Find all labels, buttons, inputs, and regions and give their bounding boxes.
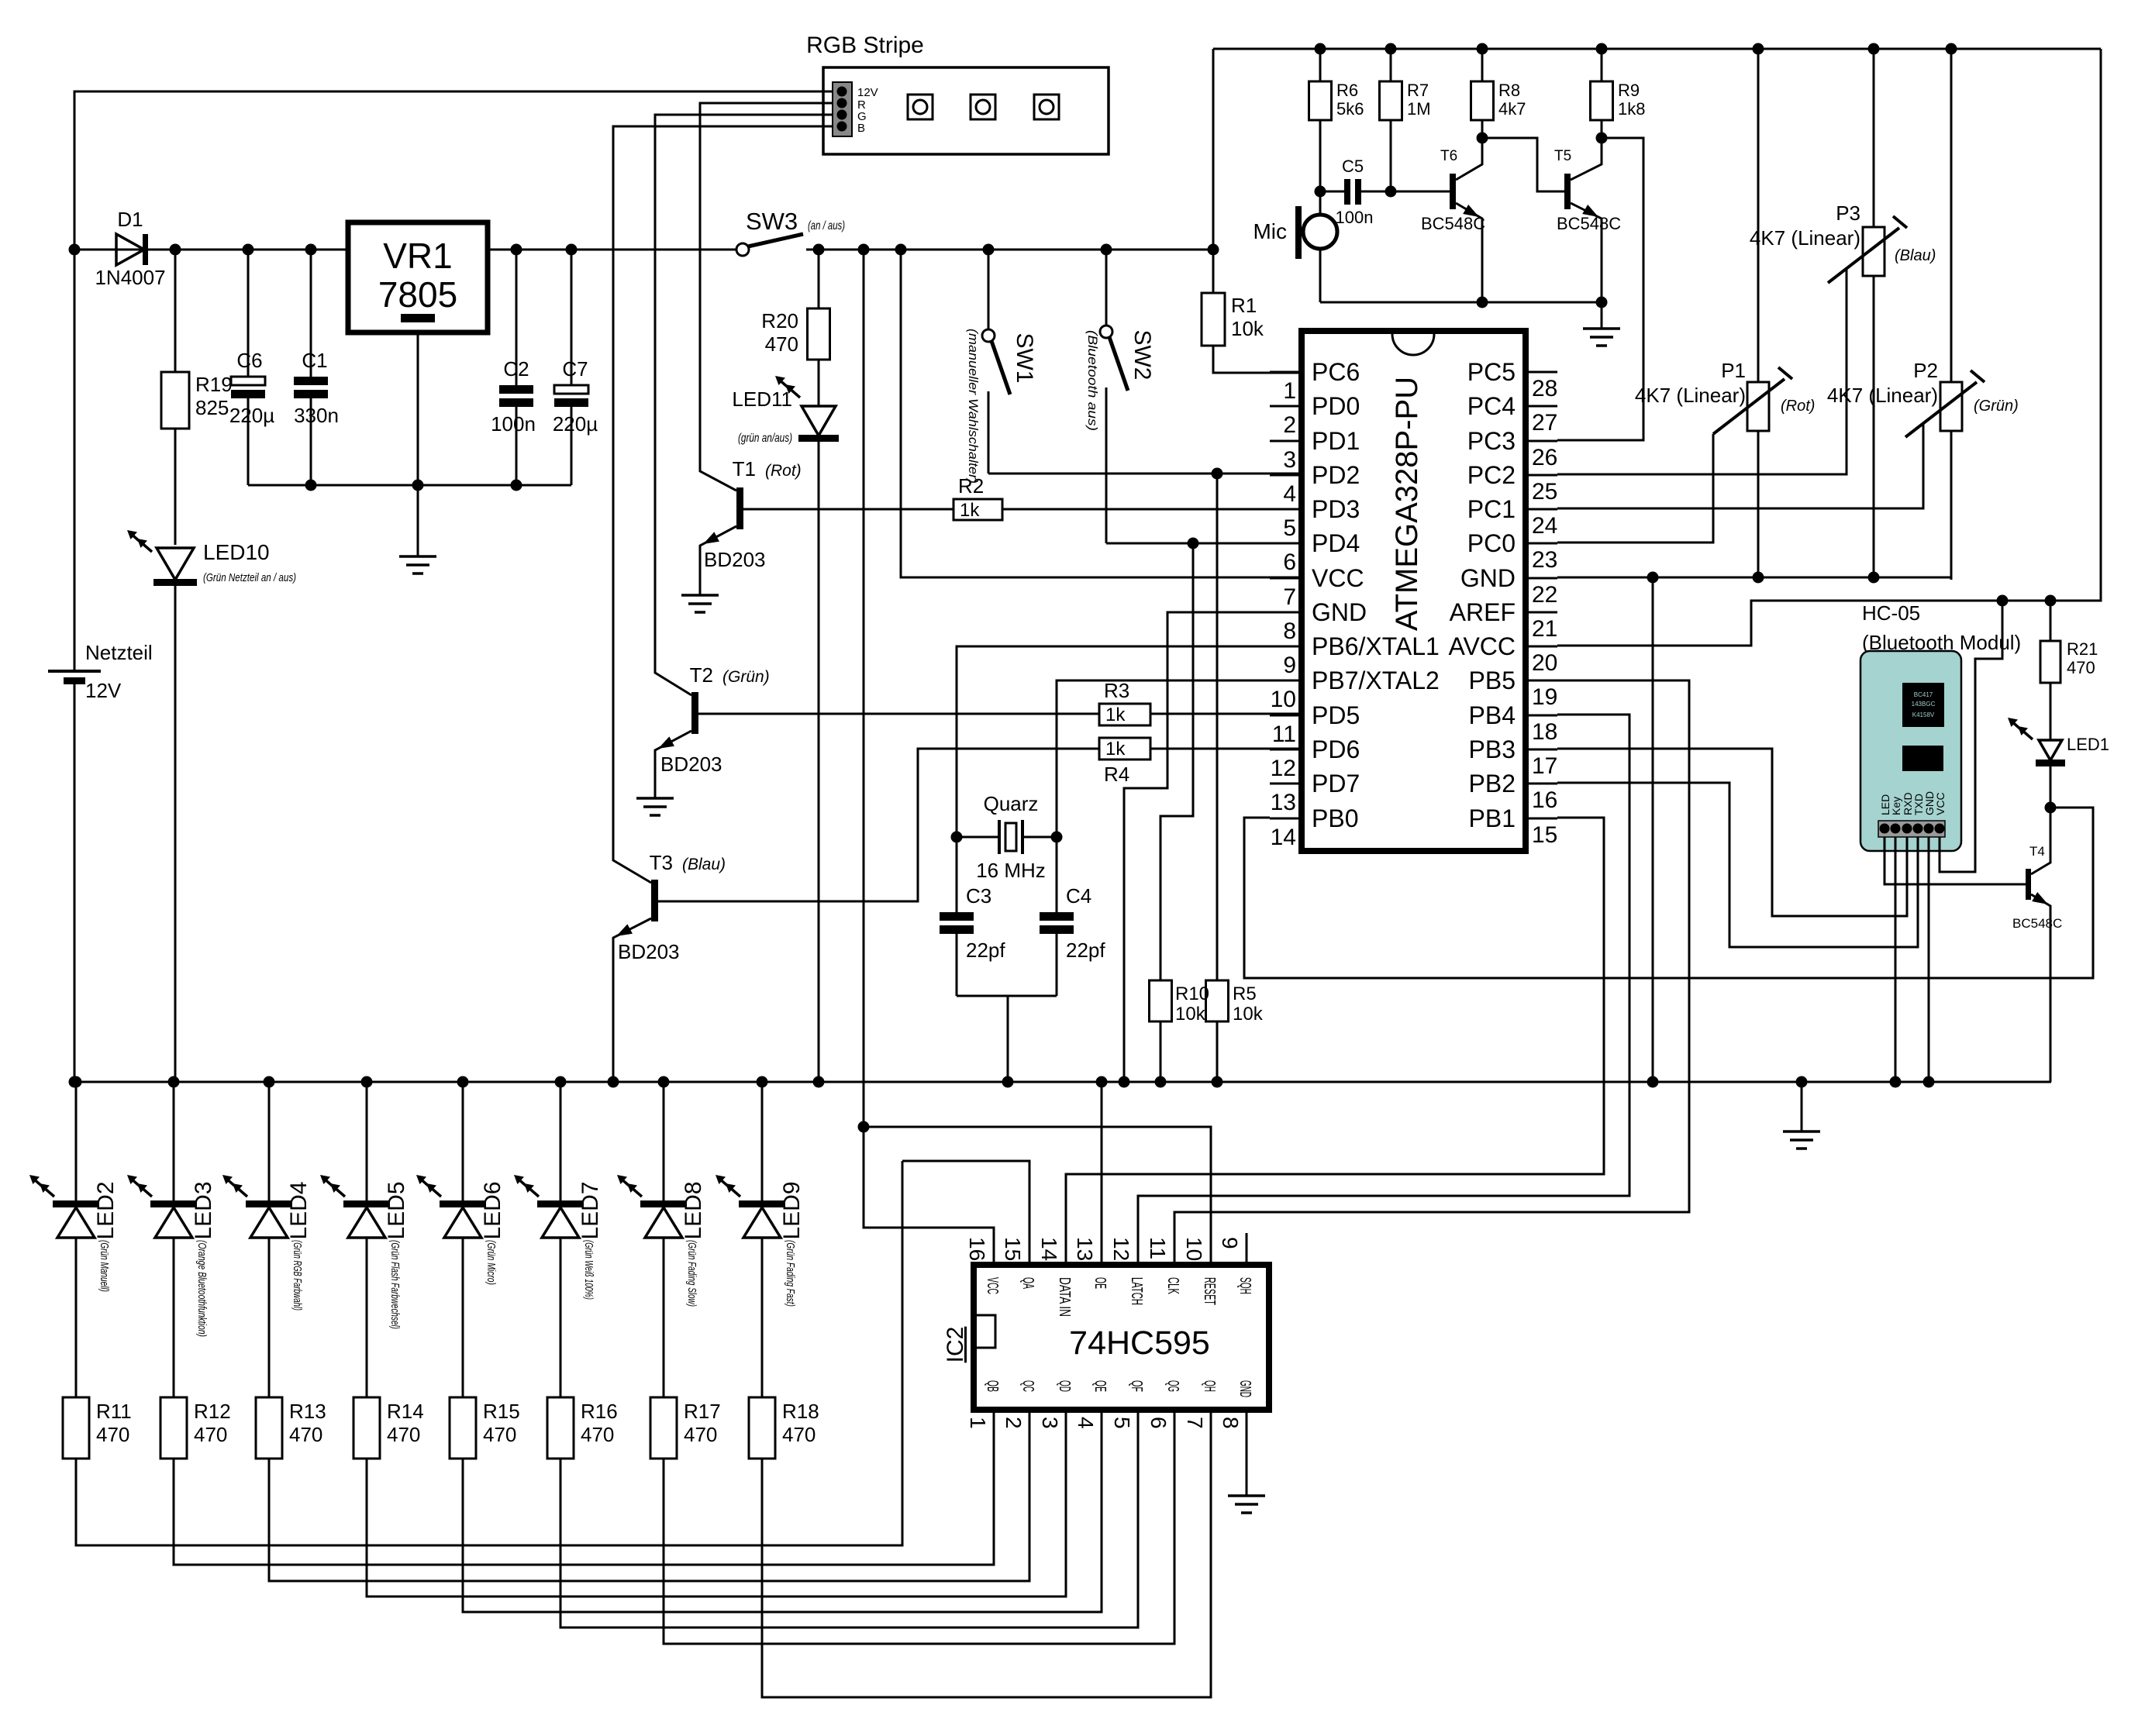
wire main rail right segment	[806, 249, 1213, 251]
svg-text:LED5: LED5	[384, 1181, 409, 1239]
HC-05 pin label Key	[1890, 797, 1902, 815]
wire 12V feed to RGB stripe	[74, 91, 834, 671]
wire PB4 pin18 to LATCH	[1138, 715, 1629, 1265]
svg-text:ATMEGA328P-PU: ATMEGA328P-PU	[1390, 377, 1424, 631]
svg-text:18: 18	[1532, 719, 1557, 745]
svg-text:SQH: SQH	[1236, 1277, 1253, 1294]
svg-text:R13: R13	[289, 1400, 326, 1423]
node mic / C5	[1315, 186, 1326, 198]
LED11 (grün an/aus)	[732, 376, 839, 1082]
switch SW1 (manueller Wahlschalter)	[966, 250, 1037, 484]
node battery minus	[69, 1076, 81, 1088]
svg-text:R20: R20	[761, 309, 798, 332]
svg-text:BC548C: BC548C	[2012, 916, 2062, 931]
wire rail to 74HC595 VCC and RESET	[864, 250, 994, 1265]
svg-text:8: 8	[1283, 618, 1296, 644]
svg-text:143BGC: 143BGC	[1912, 701, 1936, 708]
svg-text:PB4: PB4	[1469, 701, 1516, 729]
node LED11 on ground rail	[813, 1076, 825, 1088]
svg-text:25: 25	[1532, 479, 1557, 505]
svg-text:T5: T5	[1554, 148, 1571, 164]
LED LED8 (Grün Fading Slow)	[617, 1082, 706, 1240]
wire PB5 pin19 to CLK	[1174, 680, 1689, 1265]
svg-text:BD203: BD203	[660, 753, 722, 776]
svg-text:(Grün Fading Slow): (Grün Fading Slow)	[685, 1240, 698, 1307]
svg-text:1k: 1k	[960, 500, 980, 521]
pin 13 PD7	[1270, 770, 1360, 815]
svg-text:6: 6	[1283, 549, 1296, 575]
node LED3 anode rail	[168, 1076, 180, 1088]
svg-text:R9: R9	[1618, 81, 1640, 100]
svg-text:LED1: LED1	[2067, 735, 2109, 754]
node T6 emitter	[1477, 297, 1488, 308]
node C1 ground	[305, 480, 317, 491]
svg-text:P3: P3	[1836, 201, 1860, 225]
wire HC-05 RXD to PB3 pin17	[1557, 749, 1907, 916]
wire T5 collector to PC3 pin26	[1557, 138, 1643, 440]
svg-text:PD6: PD6	[1312, 735, 1360, 763]
ground below VR1	[399, 485, 436, 573]
resistor R10 10k	[1150, 980, 1210, 1082]
capacitor C6 220µ	[229, 250, 274, 485]
svg-text:(Grün Weiß 100%): (Grün Weiß 100%)	[582, 1240, 595, 1300]
svg-text:LED6: LED6	[480, 1181, 505, 1239]
svg-text:R1: R1	[1231, 294, 1257, 317]
node LED6 anode rail	[457, 1076, 469, 1088]
IC2 pin 13 OE	[1073, 1233, 1109, 1289]
svg-text:PC3: PC3	[1467, 427, 1516, 455]
ground mic amplifier	[1583, 302, 1620, 346]
node crystal left	[951, 832, 963, 843]
pin 17 PB3	[1469, 735, 1558, 779]
svg-text:8: 8	[1219, 1417, 1243, 1429]
svg-text:13: 13	[1271, 790, 1296, 815]
svg-text:470: 470	[96, 1423, 129, 1446]
svg-text:CLK: CLK	[1164, 1277, 1181, 1294]
svg-text:22: 22	[1532, 582, 1557, 608]
wire HC-05 VCC pin	[1940, 601, 2002, 872]
wire LED4 to IC2 output	[269, 1441, 1029, 1581]
node LED8 anode rail	[658, 1076, 670, 1088]
svg-text:QB: QB	[984, 1380, 1001, 1392]
svg-text:(Orange Bluetoothfunktion): (Orange Bluetoothfunktion)	[195, 1240, 209, 1337]
pin 9 PB6/XTAL1	[1270, 632, 1440, 678]
resistor R9 1k8	[1591, 49, 1646, 138]
svg-text:220µ: 220µ	[553, 412, 598, 436]
svg-text:PB6/XTAL1: PB6/XTAL1	[1312, 632, 1440, 660]
HC-05 pin label TXD	[1912, 794, 1925, 815]
svg-text:R7: R7	[1407, 81, 1429, 100]
pin 11 PD5	[1270, 701, 1360, 747]
RGB stripe connector	[833, 82, 878, 136]
pin 24 PC1	[1467, 495, 1558, 539]
svg-text:R15: R15	[483, 1400, 520, 1423]
LED LED2 (Grün Manuell)	[29, 1082, 119, 1240]
battery Netzteil 12V	[48, 641, 153, 1082]
pin 27 PC4	[1467, 392, 1558, 436]
svg-text:C5: C5	[1342, 157, 1364, 176]
svg-text:(Grün Netzteil an / aus): (Grün Netzteil an / aus)	[203, 571, 296, 584]
svg-text:P1: P1	[1721, 359, 1746, 382]
wire rail riser to mic amplifier	[1212, 49, 1215, 250]
svg-text:4k7: 4k7	[1498, 99, 1526, 119]
pin 19 PB5	[1469, 666, 1558, 710]
node HC-05 Key rail	[1890, 1076, 1902, 1088]
pin 15 PB1	[1469, 804, 1558, 848]
pin 16 PB2	[1469, 770, 1558, 813]
node OE ground tap	[1096, 1076, 1108, 1088]
svg-text:RESET: RESET	[1201, 1277, 1218, 1305]
HC-05 connector	[1878, 821, 1945, 837]
svg-text:Quarz: Quarz	[984, 792, 1039, 815]
svg-text:(grün an/aus): (grün an/aus)	[738, 432, 792, 445]
svg-text:P2: P2	[1913, 359, 1938, 382]
IC2 pin 9 SQH	[1218, 1233, 1253, 1294]
transistor T5 BC548C	[1554, 138, 1621, 302]
svg-text:PB3: PB3	[1469, 735, 1516, 763]
resistor R12 470	[160, 1238, 231, 1459]
node ATmega VCC tap	[895, 244, 907, 256]
svg-text:R5: R5	[1233, 983, 1257, 1004]
svg-text:23: 23	[1532, 547, 1557, 573]
svg-text:VR1: VR1	[383, 236, 452, 276]
svg-text:4: 4	[1074, 1417, 1098, 1429]
pin 4 PD2	[1270, 461, 1360, 507]
wire P3 wiper to PC2 pin25	[1557, 269, 1847, 474]
svg-text:5: 5	[1110, 1417, 1134, 1429]
svg-text:10k: 10k	[1175, 1004, 1206, 1025]
node P1 bottom	[1753, 572, 1764, 584]
wire P1 wiper to PC0 pin23	[1557, 434, 1713, 542]
node supply R8	[1477, 43, 1488, 55]
svg-text:21: 21	[1532, 616, 1557, 642]
resistor R3 1k	[1099, 679, 1150, 725]
svg-text:Mic: Mic	[1253, 219, 1287, 243]
label LED4 description	[291, 1240, 304, 1311]
ground T1 emitter	[681, 595, 719, 612]
svg-text:15: 15	[1532, 822, 1557, 848]
svg-text:QE: QE	[1091, 1380, 1109, 1392]
LED LED7 (Grün Weiß 100%)	[514, 1082, 603, 1240]
svg-text:10: 10	[1271, 687, 1296, 712]
svg-text:VCC: VCC	[1934, 792, 1947, 815]
svg-text:LED3: LED3	[191, 1181, 216, 1239]
RGB stripe LED button 1	[908, 95, 933, 119]
svg-text:16 MHz: 16 MHz	[976, 859, 1046, 882]
wire main ground rail	[74, 1081, 2051, 1083]
node supply P3	[1868, 43, 1880, 55]
svg-text:(Grün RGB Farbwahl): (Grün RGB Farbwahl)	[291, 1240, 304, 1311]
svg-text:(Rot): (Rot)	[1781, 398, 1815, 415]
pin 20 AVCC	[1448, 632, 1557, 676]
node GND22 drop	[1647, 572, 1659, 584]
node R5 ground	[1212, 1076, 1223, 1088]
HC-05 chip 2	[1902, 746, 1943, 771]
svg-text:5k6: 5k6	[1336, 99, 1364, 119]
IC2 pin 11 CLK	[1146, 1233, 1181, 1294]
wire RESET branch to pin10	[864, 1127, 1211, 1265]
svg-text:7: 7	[1183, 1417, 1207, 1429]
svg-text:(Grün Fading Fast): (Grün Fading Fast)	[784, 1240, 797, 1307]
voltage regulator VR1 7805	[348, 222, 488, 485]
wire LED8 to IC2 output	[664, 1441, 1174, 1644]
capacitor C2 100n	[491, 250, 536, 485]
wire LED2 to IC2 output	[76, 1161, 902, 1545]
transistor T4 BC548C	[2012, 808, 2062, 1082]
RGB stripe board	[823, 67, 1109, 154]
label LED3 description	[195, 1240, 209, 1337]
svg-text:PD5: PD5	[1312, 701, 1360, 729]
resistor R1 10k	[1202, 250, 1264, 346]
svg-text:9: 9	[1218, 1237, 1242, 1249]
LED10 (Grün Netzteil an/aus)	[127, 530, 296, 1082]
svg-text:VCC: VCC	[984, 1277, 1001, 1294]
svg-text:K4158V: K4158V	[1912, 711, 1935, 718]
svg-text:7: 7	[1283, 584, 1296, 610]
wire GND pin22 bus	[1557, 431, 1951, 577]
resistor R16 470	[547, 1238, 618, 1459]
svg-text:LED7: LED7	[578, 1181, 603, 1239]
node LED7 anode rail	[555, 1076, 567, 1088]
diode D1 1N4007	[95, 208, 165, 289]
svg-text:24: 24	[1532, 513, 1557, 539]
svg-text:R21: R21	[2067, 639, 2098, 659]
svg-text:Key: Key	[1890, 797, 1902, 815]
svg-text:11: 11	[1146, 1237, 1170, 1259]
IC2 pin 8 GND	[1219, 1380, 1253, 1441]
svg-text:BC548C: BC548C	[1421, 214, 1485, 233]
wire LED6 to IC2 output	[463, 1441, 1102, 1612]
svg-text:470: 470	[2067, 658, 2095, 677]
node C2 ground	[511, 480, 522, 491]
svg-text:(Grün Manuell): (Grün Manuell)	[98, 1240, 111, 1292]
LED LED4 (Grün RGB Farbwahl)	[222, 1082, 312, 1240]
wire PB1 pin15 to DATA IN	[1066, 818, 1604, 1265]
svg-text:T4: T4	[2029, 844, 2045, 859]
pin 12 PD6	[1270, 735, 1360, 781]
LED LED5 (Grün Flash Farbwechsel)	[320, 1082, 409, 1240]
node R7 / T6 base	[1385, 186, 1397, 198]
wire LED9 to IC2 output	[762, 1441, 1211, 1697]
capacitor C7 220µ	[553, 250, 598, 485]
resistor R21 470	[2040, 601, 2098, 740]
svg-text:PD4: PD4	[1312, 529, 1360, 557]
svg-text:R12: R12	[194, 1400, 231, 1423]
resistor R5 10k	[1206, 980, 1264, 1082]
svg-text:B: B	[857, 122, 865, 135]
svg-text:C7: C7	[562, 357, 588, 381]
svg-text:2: 2	[1002, 1417, 1026, 1429]
svg-text:12V: 12V	[857, 86, 878, 99]
svg-text:C1: C1	[302, 349, 327, 372]
svg-text:470: 470	[194, 1423, 227, 1446]
svg-text:IC2: IC2	[943, 1327, 968, 1363]
svg-text:825: 825	[195, 396, 229, 419]
resistor R4 1k	[1099, 738, 1150, 786]
svg-text:470: 470	[289, 1423, 322, 1446]
IC2 pin 10 RESET	[1182, 1233, 1218, 1305]
wire capacitor ground bus	[248, 484, 571, 487]
resistor R11 470	[63, 1238, 132, 1459]
pin 8 GND	[1270, 598, 1367, 644]
svg-text:9: 9	[1283, 653, 1296, 678]
svg-text:LED9: LED9	[779, 1181, 805, 1239]
svg-text:SW1: SW1	[1012, 332, 1037, 383]
transistor T6 BC548C	[1421, 138, 1485, 302]
svg-text:R16: R16	[581, 1400, 618, 1423]
switch SW3 (an/aus)	[736, 208, 845, 256]
wire T6 base	[1391, 191, 1450, 193]
svg-text:PC6: PC6	[1312, 358, 1360, 386]
IC U1 ATMEGA328P-PU body	[1302, 331, 1526, 851]
wire QA pin15 link	[902, 1161, 1029, 1265]
wire GND pin8 to ground rail	[1124, 612, 1302, 1082]
svg-text:16: 16	[965, 1237, 989, 1261]
pin 26 PC3	[1467, 427, 1558, 470]
svg-text:VCC: VCC	[1312, 564, 1364, 592]
IC2 pin 4 QE	[1074, 1380, 1109, 1441]
IC2 pin 6 QG	[1147, 1380, 1181, 1441]
svg-text:11: 11	[1272, 722, 1296, 747]
svg-text:(Grün Micro): (Grün Micro)	[484, 1240, 498, 1285]
svg-text:R11: R11	[96, 1400, 132, 1423]
svg-text:1k8: 1k8	[1618, 99, 1645, 119]
wire PB6/XTAL1 to crystal	[957, 646, 1302, 837]
svg-text:20: 20	[1532, 650, 1557, 676]
microphone Mic	[1253, 191, 1337, 302]
svg-text:19: 19	[1532, 684, 1557, 710]
svg-text:PC0: PC0	[1467, 529, 1516, 557]
wire P2 wiper to PC1 pin24	[1557, 424, 1923, 508]
svg-text:(Blau): (Blau)	[1895, 247, 1936, 264]
wire crystal caps to ground	[957, 996, 1057, 1082]
svg-text:14: 14	[1037, 1237, 1061, 1261]
svg-text:PD7: PD7	[1312, 770, 1360, 797]
wire LED5 to IC2 output	[367, 1441, 1066, 1596]
svg-text:(Bluetooth aus): (Bluetooth aus)	[1085, 330, 1100, 431]
node GND22 rail	[1647, 1076, 1659, 1088]
node rail ground	[1796, 1076, 1808, 1088]
ground IC2 pin8	[1228, 1410, 1265, 1513]
svg-text:26: 26	[1532, 445, 1557, 470]
IC2 pin 12 LATCH	[1109, 1233, 1145, 1305]
wire mic amplifier supply rail	[1213, 48, 2101, 50]
node C7 tap	[566, 244, 578, 256]
node RESET branch	[858, 1121, 870, 1133]
wire R line to T1 collector	[700, 103, 833, 491]
capacitor C1 330n	[294, 250, 339, 485]
wire R2 to PD3 pin5	[1002, 508, 1302, 511]
svg-text:LED11: LED11	[732, 387, 792, 411]
svg-text:(Grün Flash Farbwechsel): (Grün Flash Farbwechsel)	[388, 1240, 402, 1329]
crystal Quarz 16 MHz	[957, 792, 1057, 882]
node PD2 pulldown junction	[1212, 468, 1223, 480]
node R10 ground	[1155, 1076, 1167, 1088]
pin 3 PD1	[1270, 427, 1360, 473]
svg-text:100n: 100n	[491, 412, 536, 436]
svg-text:330n: 330n	[294, 404, 339, 427]
svg-text:15: 15	[1001, 1237, 1025, 1261]
svg-text:4: 4	[1283, 481, 1296, 507]
svg-text:10k: 10k	[1233, 1004, 1264, 1025]
svg-text:12V: 12V	[85, 679, 122, 702]
resistor R8 4k7	[1471, 49, 1526, 138]
potentiometer P2 4K7 Linear (Grün)	[1827, 49, 2019, 580]
wire R4 to PD6 pin12	[1150, 748, 1302, 750]
RGB stripe LED button 3	[1034, 95, 1059, 119]
wire LED7 to IC2 output	[560, 1441, 1138, 1627]
svg-text:16: 16	[1532, 787, 1557, 813]
svg-text:SW3: SW3	[746, 208, 798, 235]
wire HC-05 TXD to PB2 pin16	[1557, 783, 1918, 947]
node LED4 anode rail	[264, 1076, 275, 1088]
node R1 / mic supply tap	[1208, 244, 1219, 256]
svg-text:PD1: PD1	[1312, 427, 1360, 455]
pin 25 PC2	[1467, 461, 1558, 505]
svg-text:PD0: PD0	[1312, 392, 1360, 420]
svg-text:(Blau): (Blau)	[682, 856, 726, 873]
node T3 emitter on ground rail	[608, 1076, 619, 1088]
svg-text:100n: 100n	[1336, 208, 1374, 227]
svg-text:R8: R8	[1498, 81, 1520, 100]
transistor T3 BD203 (Blau)	[613, 851, 726, 1082]
wire supply to AVCC net	[1557, 49, 2101, 646]
svg-text:AREF: AREF	[1450, 598, 1516, 626]
svg-text:HC-05: HC-05	[1862, 601, 1920, 625]
node supply R7	[1385, 43, 1397, 55]
svg-text:(Rot): (Rot)	[765, 462, 802, 480]
resistor R7 1M	[1380, 49, 1431, 191]
module HC-05 body	[1860, 651, 1961, 851]
label LED8 description	[685, 1240, 698, 1307]
svg-text:PC1: PC1	[1467, 495, 1516, 523]
svg-text:R4: R4	[1104, 763, 1129, 786]
svg-text:D1: D1	[117, 208, 143, 231]
resistor R19 825	[161, 250, 233, 545]
IC2 pin 1 QB	[966, 1380, 1001, 1441]
svg-text:7805: 7805	[378, 274, 457, 315]
svg-text:C4: C4	[1066, 884, 1091, 908]
pin 23 PC0	[1467, 529, 1558, 573]
LED LED9 (Grün Fading Fast)	[716, 1082, 805, 1240]
node crystal ground	[1002, 1076, 1014, 1088]
svg-text:(manueller Wahlschalter): (manueller Wahlschalter)	[966, 329, 981, 484]
switch SW2 (Bluetooth aus)	[1085, 250, 1155, 543]
wire LED3 to IC2 output	[174, 1441, 994, 1565]
pin 22 GND	[1460, 564, 1557, 608]
node supply P2	[1946, 43, 1957, 55]
node HC-05 GND rail	[1923, 1076, 1935, 1088]
svg-text:220µ: 220µ	[229, 404, 274, 427]
svg-text:1: 1	[1283, 378, 1296, 404]
wire PB7/XTAL2 to crystal	[1057, 680, 1302, 837]
svg-text:3: 3	[1038, 1417, 1062, 1429]
svg-text:AVCC: AVCC	[1448, 632, 1516, 660]
svg-text:6: 6	[1147, 1417, 1171, 1429]
svg-text:T2: T2	[690, 663, 713, 687]
svg-text:R3: R3	[1104, 679, 1129, 702]
resistor R14 470	[353, 1238, 424, 1459]
svg-text:C3: C3	[966, 884, 991, 908]
IC2 pin 2 QC	[1002, 1380, 1036, 1441]
potentiometer P1 4K7 Linear (Rot)	[1635, 49, 1816, 580]
wire G line to T2 collector	[655, 115, 833, 695]
node 74HC595 supply tap	[858, 244, 870, 256]
RGB stripe LED button 2	[971, 95, 995, 119]
svg-text:PB1: PB1	[1469, 804, 1516, 832]
wire HC-05 LED pin to T4 base	[1885, 837, 2026, 884]
label LED6 description	[484, 1240, 498, 1285]
